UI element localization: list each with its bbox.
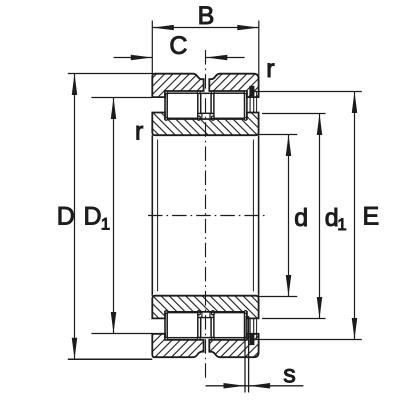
d extension line bottom <box>259 296 298 298</box>
D1 extension line top <box>91 97 152 99</box>
B extension line left <box>151 21 153 74</box>
inner ring top <box>152 113 258 136</box>
D1 dimension line <box>113 98 115 334</box>
bottom half details <box>152 215 258 345</box>
svg-text:C: C <box>169 32 187 60</box>
s dimension line right tail <box>249 385 304 387</box>
svg-text:r: r <box>135 118 143 146</box>
svg-text:d: d <box>294 204 308 232</box>
inner ring bottom <box>152 296 258 319</box>
svg-text:E: E <box>363 202 380 230</box>
d1 arrow top <box>317 114 323 136</box>
D arrow bottom <box>72 338 78 360</box>
d arrow top <box>286 135 292 157</box>
B dimension line <box>152 27 258 29</box>
E arrow bottom <box>352 318 358 340</box>
svg-text:s: s <box>283 361 296 389</box>
B arrow left <box>152 25 174 30</box>
d1 extension line top <box>262 113 326 115</box>
E extension line top <box>252 91 362 93</box>
C dimension line right tail <box>206 57 245 59</box>
outer ring top (left part) <box>152 74 203 97</box>
s extension line left <box>244 316 246 393</box>
horizontal axis center line <box>146 215 266 217</box>
B arrow right <box>237 25 258 30</box>
d arrow bottom <box>286 275 292 297</box>
D1 extension line bottom <box>91 333 152 335</box>
vertical center line <box>205 50 207 378</box>
D1 arrow bottom <box>111 312 117 334</box>
s arrow right <box>249 383 271 389</box>
d1 arrow bottom <box>317 297 323 319</box>
E dimension line <box>354 92 356 340</box>
d1 extension line bottom <box>262 318 326 320</box>
D arrow top <box>72 74 78 96</box>
E arrow top <box>352 92 358 114</box>
D extension line top <box>68 73 153 75</box>
svg-text:1: 1 <box>101 215 110 234</box>
svg-text:1: 1 <box>337 215 346 234</box>
svg-text:D: D <box>57 203 75 231</box>
D dimension line <box>74 74 76 360</box>
outer ring bottom (right part) <box>209 334 258 357</box>
svg-text:D: D <box>84 203 102 231</box>
D1 arrow top <box>111 98 117 120</box>
svg-text:r: r <box>266 55 274 83</box>
E extension line bottom <box>252 339 362 341</box>
outer ring bottom (left part) <box>152 334 203 357</box>
outer ring top (right part) <box>209 74 258 97</box>
B extension line right <box>258 21 260 80</box>
d dimension line <box>288 135 290 297</box>
D extension line bottom <box>68 358 153 360</box>
svg-text:B: B <box>198 2 215 30</box>
C dimension line left tail <box>114 57 153 59</box>
top half details <box>152 86 258 216</box>
s arrow left <box>224 383 246 389</box>
s dimension line left tail <box>206 385 249 387</box>
s extension line right <box>248 316 250 393</box>
C arrow left (outside pointing right) <box>131 55 153 60</box>
C arrow right (outside pointing left) <box>206 55 228 60</box>
d1 dimension line <box>319 114 321 319</box>
d extension line top <box>259 134 298 136</box>
